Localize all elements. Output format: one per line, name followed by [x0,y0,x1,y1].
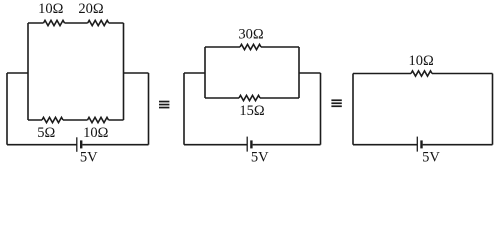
wire circuit1 outer-left vertical [6,73,8,145]
resistor 30Ω circuit2 zigzag [240,44,261,49]
svg-text:20Ω: 20Ω [78,1,104,17]
svg-text:5V: 5V [422,150,440,166]
resistor 15Ω circuit2 zigzag [239,95,260,100]
svg-text:10Ω: 10Ω [38,1,64,17]
wire circuit3 bottom right segment [423,144,493,146]
wire circuit2 inner-right vertical [298,47,300,98]
svg-text:5V: 5V [251,150,269,166]
wire circuit1 outer-right vertical [148,73,150,145]
wire circuit1 inner-right vertical [123,23,125,120]
equivalence symbol ≡ (between circuit 1 and 2) [159,101,169,109]
battery 5V circuit3 short plate (-) [420,140,422,148]
wire circuit3 bottom left segment [353,144,417,146]
wire circuit2 bottom outer right segment [253,144,321,146]
battery 5V circuit1 short plate (-) [80,140,82,148]
wire circuit2 left stub [184,72,205,74]
svg-text:15Ω: 15Ω [239,103,265,119]
battery 5V circuit1 long plate (+) [76,137,78,152]
wire circuit2 bottom inner side segments [205,97,299,99]
resistor 10Ω circuit3 zigzag [411,71,432,76]
wire circuit2 outer-right vertical [320,73,322,145]
wire circuit2 inner-left vertical [204,47,206,98]
resistor 10Ω circuit1 top-left zigzag [44,20,65,25]
wire circuit1 bottom outer left segment [7,144,77,146]
wire circuit2 top side segments [205,46,299,48]
svg-text:10Ω: 10Ω [83,125,109,141]
wire circuit2 right stub [299,72,321,74]
wire circuit3 left vertical [352,74,354,145]
battery 5V circuit2 short plate (-) [250,140,252,148]
equivalence symbol ≡ (between circuit 2 and 3) [331,99,341,107]
wire circuit2 outer-left vertical [183,73,185,145]
svg-text:30Ω: 30Ω [238,27,264,43]
resistor 20Ω circuit1 top-right zigzag [88,20,109,25]
wire circuit1 inner-left vertical [27,23,29,120]
wire circuit1 top side segments [28,22,124,24]
wire circuit3 top side segments [353,73,493,75]
wire circuit1 bottom inner side segments [28,119,124,121]
resistor 10Ω circuit1 bottom-right zigzag [88,117,109,122]
wire circuit3 right vertical [492,74,494,145]
wire circuit2 bottom outer left segment [184,144,247,146]
svg-text:10Ω: 10Ω [409,53,435,69]
resistor 5Ω circuit1 bottom-left zigzag [42,117,63,122]
wire circuit1 left stub (node junction to outer loop) [7,72,28,74]
svg-text:5Ω: 5Ω [37,125,55,141]
battery 5V circuit3 long plate (+) [416,137,418,152]
wire circuit1 bottom outer right segment [82,144,148,146]
battery 5V circuit2 long plate (+) [246,137,248,152]
svg-text:5V: 5V [80,150,98,166]
wire circuit1 right stub (node junction to outer loop) [124,72,149,74]
